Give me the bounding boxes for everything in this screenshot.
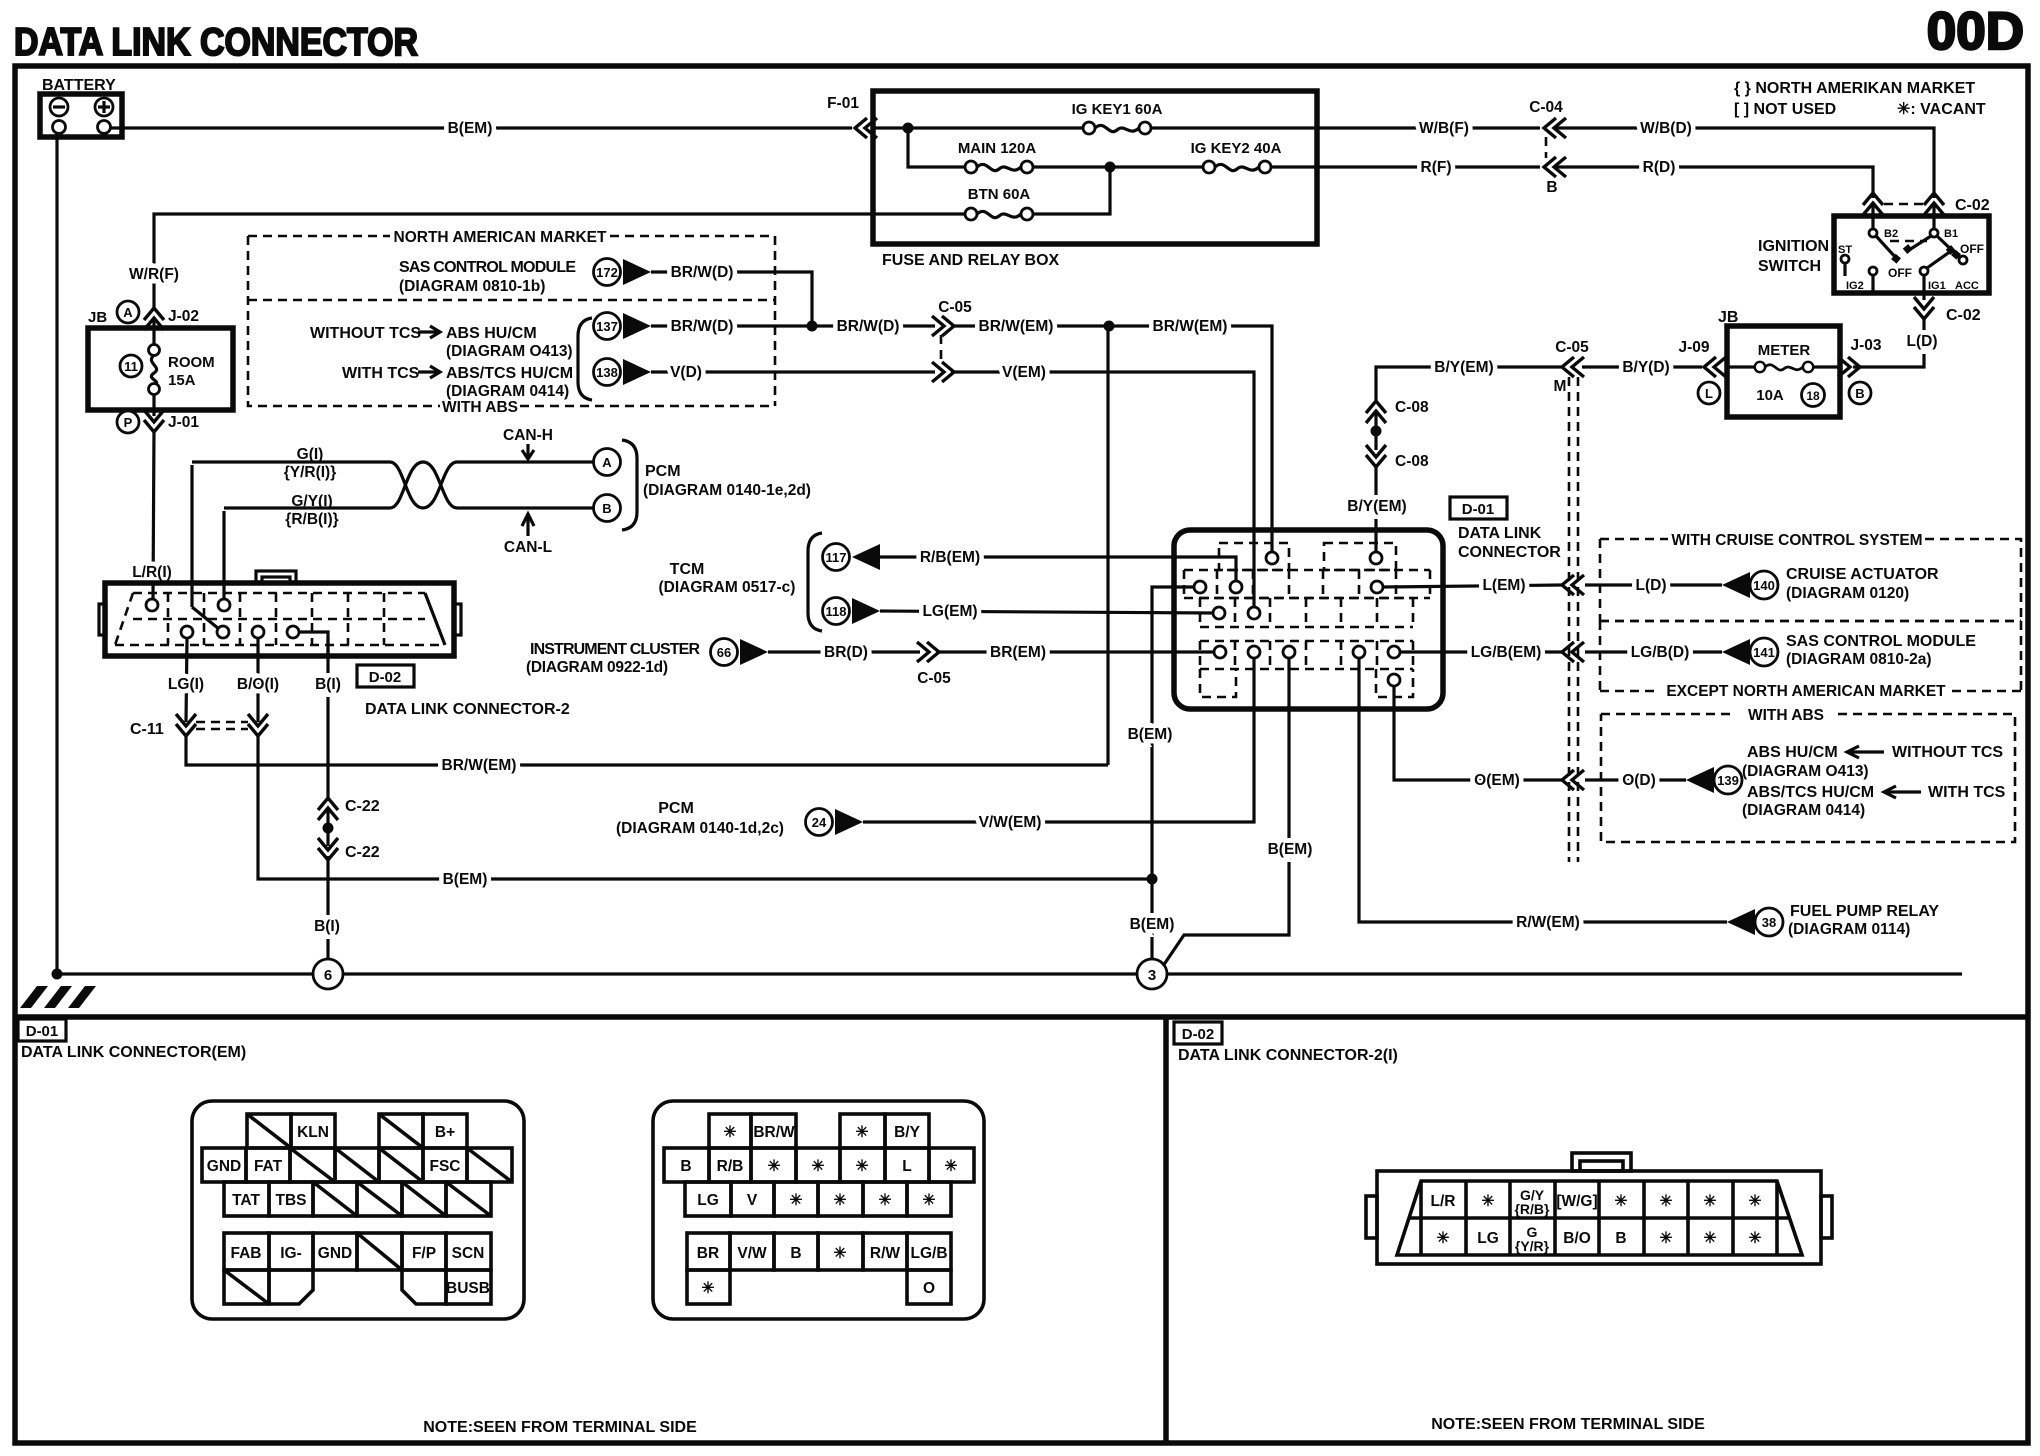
DLC pin BR	[1214, 646, 1226, 658]
svg-text:B+: B+	[435, 1124, 455, 1141]
svg-text:A: A	[602, 455, 612, 470]
svg-text:B/Y(EM): B/Y(EM)	[1347, 498, 1406, 515]
data link connector-2 D-02	[99, 571, 461, 656]
JB junction P / J-01	[117, 410, 199, 433]
row5	[224, 1270, 269, 1304]
svg-text:TAT: TAT	[232, 1192, 260, 1209]
svg-text:O: O	[923, 1280, 935, 1297]
svg-text:J-01: J-01	[168, 414, 199, 431]
title: DATA LINK CONNECTOR	[14, 21, 418, 64]
row5	[687, 1270, 730, 1304]
svg-text:[W/G]: [W/G]	[1556, 1193, 1597, 1210]
JB junction block A / J-02	[88, 301, 199, 330]
svg-text:C-05: C-05	[1555, 339, 1589, 356]
wire W/B(D) to ignition	[1556, 120, 1934, 198]
svg-text:WITH ABS: WITH ABS	[1748, 707, 1824, 724]
svg-text:BR/W(D): BR/W(D)	[837, 318, 900, 335]
svg-text:✳: ✳	[1482, 1193, 1495, 1210]
wire BR(D) to C-05	[768, 644, 920, 661]
svg-text:O(D): O(D)	[1622, 772, 1656, 789]
svg-text:IG KEY1 60A: IG KEY1 60A	[1072, 101, 1163, 118]
svg-text:✳: ✳	[834, 1245, 847, 1262]
ground junction circle 6	[313, 959, 343, 989]
row3	[224, 1182, 269, 1216]
svg-text:R/B(EM): R/B(EM)	[920, 549, 980, 566]
svg-text:✳: ✳	[1660, 1230, 1673, 1247]
svg-text:SWITCH: SWITCH	[1758, 258, 1821, 275]
svg-text:✳: ✳	[879, 1192, 892, 1209]
svg-text:B(EM): B(EM)	[1268, 841, 1313, 858]
connector C-05 O row	[1562, 770, 1584, 790]
D-02 pin L/R	[146, 599, 158, 611]
svg-text:J-02: J-02	[168, 308, 199, 325]
svg-text:BR/W(EM): BR/W(EM)	[979, 318, 1054, 335]
wire BR(EM) to DLC	[936, 644, 1214, 661]
ABS HU/CM labels	[310, 318, 592, 400]
svg-text:BR: BR	[697, 1245, 719, 1262]
svg-text:V/W: V/W	[737, 1245, 767, 1262]
wire to MAIN fuse row	[908, 128, 966, 167]
svg-text:117: 117	[826, 550, 847, 565]
wire L(EM) from DLC	[1383, 577, 1562, 594]
SAS control module 172	[399, 259, 651, 296]
D-02 pin LG	[181, 626, 193, 638]
svg-text:L(D): L(D)	[1907, 333, 1938, 350]
PCM bracket	[622, 440, 811, 530]
svg-text:FUSE AND RELAY BOX: FUSE AND RELAY BOX	[882, 252, 1060, 269]
svg-text:118: 118	[826, 604, 847, 619]
svg-text:✳: ✳	[1437, 1230, 1450, 1247]
svg-text:IG1: IG1	[1928, 280, 1946, 292]
page code 00D	[1927, 2, 2024, 61]
DLC pin L	[1371, 581, 1383, 593]
svg-text:(DIAGRAM 0810-1b): (DIAGRAM 0810-1b)	[399, 278, 545, 295]
wire MAIN to IG KEY2	[1032, 162, 1204, 173]
connector C-05 cluster	[917, 642, 951, 687]
svg-text:L/R(I): L/R(I)	[132, 564, 172, 581]
svg-text:L: L	[1705, 386, 1713, 401]
DLC pin BR/W	[1266, 552, 1278, 564]
D-02 pin G/Y top	[218, 511, 230, 611]
svg-text:WITH TCS: WITH TCS	[342, 365, 420, 382]
svg-text:66: 66	[717, 645, 731, 660]
svg-text:(DIAGRAM O413): (DIAGRAM O413)	[1742, 763, 1869, 780]
svg-text:(DIAGRAM 0922-1d): (DIAGRAM 0922-1d)	[526, 659, 668, 676]
svg-text:G/Y(I): G/Y(I)	[291, 493, 332, 510]
svg-text:BTN 60A: BTN 60A	[968, 186, 1031, 203]
svg-text:C-04: C-04	[1529, 99, 1563, 116]
wire BR/W(D) from 172	[651, 264, 812, 326]
svg-text:38: 38	[1762, 915, 1776, 930]
svg-text:C-02: C-02	[1955, 197, 1990, 214]
svg-text:✳: ✳	[768, 1158, 781, 1175]
svg-text:LG: LG	[697, 1192, 719, 1209]
fuse ROOM 15A	[88, 320, 233, 416]
svg-text:IGNITION: IGNITION	[1758, 238, 1829, 255]
svg-text:✳: ✳	[790, 1192, 803, 1209]
svg-text:B(EM): B(EM)	[1130, 916, 1175, 933]
svg-text:BR(D): BR(D)	[824, 644, 868, 661]
svg-text:✳: ✳	[1704, 1193, 1717, 1210]
svg-text:L/R: L/R	[1431, 1193, 1456, 1210]
svg-text:LG/B(EM): LG/B(EM)	[1471, 644, 1542, 661]
svg-text:FAB: FAB	[231, 1245, 262, 1262]
svg-text:172: 172	[596, 265, 618, 280]
connector J-09	[1678, 339, 1726, 404]
svg-text:C-22: C-22	[345, 798, 380, 815]
row4	[687, 1233, 730, 1270]
note seen from terminal side left	[423, 1419, 697, 1436]
svg-text:WITH TCS: WITH TCS	[1928, 784, 2006, 801]
svg-text:✳: VACANT: ✳: VACANT	[1897, 101, 1986, 118]
svg-text:6: 6	[324, 967, 332, 984]
wire B/O(I)	[237, 638, 279, 722]
wire B(EM) from DLC pin B to ground circle 3	[1163, 658, 1312, 966]
svg-text:{R/B(I)}: {R/B(I)}	[285, 511, 338, 528]
ground symbol	[20, 986, 96, 1008]
svg-text:R/W: R/W	[870, 1245, 901, 1262]
ABS HU/CM 137	[594, 313, 652, 340]
ABS HU/CM 139	[1686, 744, 2006, 819]
svg-text:R(D): R(D)	[1643, 159, 1676, 176]
PCM connector B	[594, 495, 621, 522]
C-05 boundary dashed lines	[1569, 377, 1578, 862]
svg-text:B(EM): B(EM)	[443, 871, 488, 888]
fuse IG KEY1 60A	[1072, 101, 1163, 134]
svg-text:L(D): L(D)	[1636, 577, 1667, 594]
svg-text:V: V	[747, 1192, 758, 1209]
wire B/Y(D) meter to C-05	[1582, 359, 1702, 376]
wire L(D) down to meter row	[1853, 316, 1938, 367]
connector C-02 top	[1863, 193, 1990, 215]
wire B(EM) battery to fuse box	[111, 120, 852, 137]
D-01 panel label	[21, 1044, 246, 1061]
svg-text:BR/W(D): BR/W(D)	[671, 264, 734, 281]
fuse IG KEY2 40A	[1191, 140, 1282, 173]
svg-text:DATA LINK: DATA LINK	[1458, 525, 1542, 542]
svg-text:✳: ✳	[1660, 1193, 1673, 1210]
wire L(D) to cruise	[1585, 577, 1722, 594]
svg-text:{ } NORTH AMERIKAN MARKET: { } NORTH AMERIKAN MARKET	[1734, 80, 1975, 97]
JB meter fuse box	[1718, 309, 1840, 417]
svg-text:F/P: F/P	[412, 1245, 436, 1262]
svg-text:C-02: C-02	[1946, 307, 1981, 324]
svg-text:✳: ✳	[1615, 1193, 1628, 1210]
connector C-05 LG/B row	[1562, 642, 1584, 662]
row1	[247, 1114, 291, 1148]
svg-text:TBS: TBS	[276, 1192, 307, 1209]
connector C-05 (engine)	[932, 299, 972, 382]
svg-text:TCM: TCM	[670, 561, 705, 578]
svg-text:11: 11	[124, 359, 138, 374]
svg-text:✳: ✳	[724, 1124, 737, 1141]
wire LG/B(D) to SAS	[1585, 644, 1722, 661]
wire V/W(EM) to DLC	[863, 658, 1254, 831]
frame divider horizontal	[15, 1014, 2028, 1020]
D-02 panel label	[1178, 1047, 1398, 1064]
junction	[903, 123, 914, 134]
svg-text:DATA LINK CONNECTOR-2: DATA LINK CONNECTOR-2	[365, 701, 570, 718]
svg-text:WITHOUT TCS: WITHOUT TCS	[1892, 744, 2003, 761]
wire B(EM) from DLC pin to ground circle 3	[1128, 587, 1194, 959]
PCM 24	[616, 800, 863, 837]
svg-text:DATA LINK CONNECTOR(EM): DATA LINK CONNECTOR(EM)	[21, 1044, 246, 1061]
svg-text:✳: ✳	[834, 1192, 847, 1209]
svg-text:IG KEY2 40A: IG KEY2 40A	[1191, 140, 1282, 157]
wire G(I) CAN-H to PCM A	[192, 446, 593, 508]
wire LG(I) to BR/W(EM) bus	[186, 733, 1108, 774]
DLC pin B/Y	[1370, 552, 1382, 564]
svg-text:B/O: B/O	[1563, 1230, 1591, 1247]
svg-text:B(EM): B(EM)	[1128, 726, 1173, 743]
wire L/R(I) to DLC-2	[132, 429, 172, 600]
svg-text:J-09: J-09	[1678, 339, 1709, 356]
connector C-05 L row	[1562, 575, 1584, 595]
svg-text:ABS/TCS HU/CM: ABS/TCS HU/CM	[1747, 784, 1874, 801]
svg-text:138: 138	[596, 365, 618, 380]
wire battery negative to ground bus	[55, 134, 58, 974]
svg-text:✳: ✳	[1749, 1193, 1762, 1210]
wire B(I)	[315, 638, 341, 798]
svg-text:B: B	[1615, 1230, 1626, 1247]
svg-text:BR/W(EM): BR/W(EM)	[442, 757, 517, 774]
connector C-22	[318, 798, 380, 861]
svg-text:W/B(D): W/B(D)	[1640, 120, 1692, 137]
wire R(F)	[1317, 159, 1540, 176]
svg-text:SAS CONTROL MODULE: SAS CONTROL MODULE	[1786, 633, 1976, 650]
connector C-02 bottom	[1914, 297, 1981, 324]
svg-text:D-01: D-01	[1462, 501, 1495, 518]
svg-text:✳: ✳	[1704, 1230, 1717, 1247]
svg-text:D-02: D-02	[1182, 1026, 1215, 1043]
connector C-11	[130, 714, 268, 738]
svg-text:15A: 15A	[168, 372, 196, 389]
svg-text:IG-: IG-	[280, 1245, 302, 1262]
fuse BTN 60A	[965, 186, 1033, 220]
svg-text:FUEL PUMP RELAY: FUEL PUMP RELAY	[1790, 903, 1939, 920]
svg-text:(DIAGRAM 0140-1e,2d): (DIAGRAM 0140-1e,2d)	[643, 482, 811, 499]
svg-text:O(EM): O(EM)	[1474, 772, 1520, 789]
wire B/Y(EM) to DLC	[1376, 359, 1562, 400]
svg-text:J-03: J-03	[1850, 337, 1881, 354]
svg-text:BR/W: BR/W	[753, 1124, 795, 1141]
wire O(D) to ABS	[1585, 772, 1686, 789]
svg-text:ABS/TCS HU/CM: ABS/TCS HU/CM	[446, 365, 573, 382]
connector view D-02	[1366, 1153, 1832, 1264]
svg-text:(DIAGRAM 0114): (DIAGRAM 0114)	[1788, 921, 1910, 938]
wire LG(EM) to DLC	[880, 603, 1213, 620]
svg-text:SCN: SCN	[452, 1245, 485, 1262]
connector F-01	[827, 95, 877, 138]
svg-text:DATA LINK CONNECTOR-2(I): DATA LINK CONNECTOR-2(I)	[1178, 1047, 1398, 1064]
svg-text:(DIAGRAM O413): (DIAGRAM O413)	[446, 343, 573, 360]
svg-text:LG/B(D): LG/B(D)	[1631, 644, 1690, 661]
wire B/Y(EM) into DLC pin	[1347, 464, 1406, 552]
svg-text:MAIN 120A: MAIN 120A	[958, 140, 1037, 157]
svg-text:CRUISE ACTUATOR: CRUISE ACTUATOR	[1786, 566, 1939, 583]
north american market dashed box	[248, 229, 775, 416]
label data link connector-2	[365, 701, 570, 718]
with ABS dashed box	[1601, 707, 2015, 842]
fuel pump relay 38	[1727, 903, 1939, 938]
svg-text:B: B	[790, 1245, 801, 1262]
svg-text:{Y/R(I)}: {Y/R(I)}	[284, 464, 337, 481]
ground junction circle 3	[1137, 959, 1167, 989]
svg-text:WITHOUT TCS: WITHOUT TCS	[310, 325, 421, 342]
svg-text:140: 140	[1753, 578, 1775, 593]
connector view D-01 left	[192, 1101, 524, 1319]
wire V(EM) C-05 to DLC	[951, 364, 1254, 607]
svg-text:B(I): B(I)	[315, 676, 341, 693]
frame divider vertical	[1163, 1017, 1169, 1443]
svg-text:R/B: R/B	[717, 1158, 744, 1175]
battery B1	[40, 77, 122, 137]
svg-text:METER: METER	[1758, 342, 1811, 359]
row1	[709, 1114, 751, 1148]
svg-text:CAN-H: CAN-H	[503, 427, 553, 444]
svg-text:ABS HU/CM: ABS HU/CM	[446, 325, 537, 342]
wire W/R(F) from fuse box to JB	[129, 214, 873, 311]
wire BR/W(EM) riser	[1106, 326, 1109, 765]
svg-text:F-01: F-01	[827, 95, 859, 112]
D-02 tag	[357, 665, 414, 687]
DLC pin LG/B	[1388, 646, 1400, 658]
svg-text:R/W(EM): R/W(EM)	[1516, 914, 1580, 931]
wire W/B(F) fuse box to C-04	[1317, 120, 1540, 137]
svg-text:IG2: IG2	[1846, 280, 1864, 292]
svg-text:B: B	[680, 1158, 691, 1175]
ABS/TCS HU/CM 138	[594, 359, 652, 386]
svg-text:EXCEPT NORTH AMERICAN MARKET: EXCEPT NORTH AMERICAN MARKET	[1666, 683, 1946, 700]
CAN-L label and arrow	[504, 514, 552, 556]
label data link connector	[1458, 525, 1561, 561]
DLC pin V	[1248, 607, 1260, 619]
row4	[224, 1233, 269, 1270]
svg-text:ABS HU/CM: ABS HU/CM	[1747, 744, 1838, 761]
svg-text:141: 141	[1753, 645, 1775, 660]
svg-text:DATA LINK CONNECTOR: DATA LINK CONNECTOR	[14, 21, 418, 64]
wire B/O(I) to B(EM) bus	[258, 733, 1148, 888]
svg-text:P: P	[124, 415, 133, 430]
D-02 pin B	[287, 626, 328, 656]
svg-text:PCM: PCM	[645, 463, 681, 480]
svg-text:KLN: KLN	[297, 1124, 329, 1141]
fuse and relay box	[873, 91, 1317, 269]
svg-text:B/Y(EM): B/Y(EM)	[1434, 359, 1493, 376]
ground bus	[52, 969, 1963, 980]
svg-text:(DIAGRAM 0810-2a): (DIAGRAM 0810-2a)	[1786, 651, 1932, 668]
note seen from terminal side right	[1431, 1416, 1705, 1433]
svg-text:✳: ✳	[856, 1158, 869, 1175]
instrument cluster 66	[526, 639, 768, 677]
svg-text:ACC: ACC	[1955, 280, 1979, 292]
svg-text:(DIAGRAM 0414): (DIAGRAM 0414)	[446, 383, 569, 400]
svg-text:SAS CONTROL MODULE: SAS CONTROL MODULE	[399, 259, 576, 276]
svg-text:ROOM: ROOM	[168, 354, 215, 371]
row2	[202, 1148, 246, 1182]
svg-text:W/R(F): W/R(F)	[129, 266, 179, 283]
CAN-H label and arrow	[503, 427, 553, 459]
svg-text:D-01: D-01	[26, 1023, 59, 1040]
svg-text:R(F): R(F)	[1421, 159, 1452, 176]
wire G/Y(I) CAN-L to PCM B	[224, 462, 593, 528]
row3	[685, 1182, 731, 1216]
svg-text:NORTH AMERICAN MARKET: NORTH AMERICAN MARKET	[394, 229, 607, 246]
svg-text:BUSB: BUSB	[446, 1280, 490, 1297]
wire IG KEY2 to box edge	[1270, 165, 1317, 168]
svg-text:C-05: C-05	[917, 670, 951, 687]
connector C-05 M	[1554, 339, 1590, 395]
svg-text:G(I): G(I)	[297, 446, 324, 463]
svg-text:JB: JB	[88, 309, 107, 326]
svg-text:CAN-L: CAN-L	[504, 539, 552, 556]
svg-text:PCM: PCM	[658, 800, 694, 817]
TCM pin 118	[823, 598, 881, 625]
wire R/B(EM) to DLC	[880, 549, 1236, 581]
connector J-03	[1838, 337, 1882, 404]
D-02 panel tag	[1174, 1022, 1222, 1044]
svg-text:139: 139	[1717, 773, 1739, 788]
wire O(EM) from DLC	[1394, 686, 1562, 789]
svg-text:ST: ST	[1838, 244, 1852, 256]
svg-text:{Y/R}: {Y/R}	[1515, 1238, 1550, 1254]
connector C-08	[1366, 399, 1429, 470]
svg-text:C-08: C-08	[1395, 399, 1429, 416]
svg-text:✳: ✳	[702, 1280, 715, 1297]
wire inside fuse box top	[873, 126, 1317, 129]
svg-text:OFF: OFF	[1960, 242, 1984, 256]
svg-text:B(I): B(I)	[314, 918, 340, 935]
svg-text:V(EM): V(EM)	[1002, 364, 1046, 381]
svg-text:LG/B: LG/B	[910, 1245, 947, 1262]
svg-text:B: B	[1855, 386, 1864, 401]
svg-text:B2: B2	[1884, 228, 1898, 240]
svg-text:WITH ABS: WITH ABS	[442, 399, 518, 416]
svg-text:FSC: FSC	[430, 1158, 461, 1175]
svg-text:✳: ✳	[945, 1158, 958, 1175]
svg-text:V/W(EM): V/W(EM)	[979, 814, 1042, 831]
wire LG(I)	[168, 638, 204, 722]
cruise actuator 140	[1722, 566, 1939, 602]
connector C-04	[1529, 99, 1566, 196]
svg-text:10A: 10A	[1756, 387, 1784, 404]
svg-text:00D: 00D	[1927, 2, 2024, 61]
svg-text:[ ] NOT USED: [ ] NOT USED	[1734, 101, 1836, 118]
svg-text:LG: LG	[1477, 1230, 1499, 1247]
legend	[1734, 80, 1986, 118]
svg-text:INSTRUMENT CLUSTER: INSTRUMENT CLUSTER	[530, 641, 700, 658]
wire BTN row	[873, 167, 1110, 214]
ignition switch	[1758, 216, 1989, 293]
svg-text:B(EM): B(EM)	[448, 120, 493, 137]
svg-text:B: B	[602, 501, 611, 516]
svg-text:M: M	[1554, 378, 1567, 395]
svg-text:BR/W(EM): BR/W(EM)	[1153, 318, 1228, 335]
SAS control module 141	[1722, 633, 1976, 668]
svg-text:✳: ✳	[923, 1192, 936, 1209]
wires C-02 into ignition switch	[1873, 205, 1934, 230]
svg-text:BR(EM): BR(EM)	[990, 644, 1046, 661]
svg-text:FAT: FAT	[254, 1158, 283, 1175]
svg-text:WITH CRUISE CONTROL SYSTEM: WITH CRUISE CONTROL SYSTEM	[1671, 532, 1922, 549]
svg-text:A: A	[123, 305, 133, 320]
DLC pin O	[1388, 674, 1400, 686]
svg-text:NOTE:SEEN FROM TERMINAL SIDE: NOTE:SEEN FROM TERMINAL SIDE	[1431, 1416, 1705, 1433]
except north american market dashed box	[1600, 621, 2021, 700]
svg-text:D-02: D-02	[369, 669, 402, 686]
with cruise control dashed box	[1600, 532, 2021, 621]
D-01 tag	[1450, 497, 1507, 519]
